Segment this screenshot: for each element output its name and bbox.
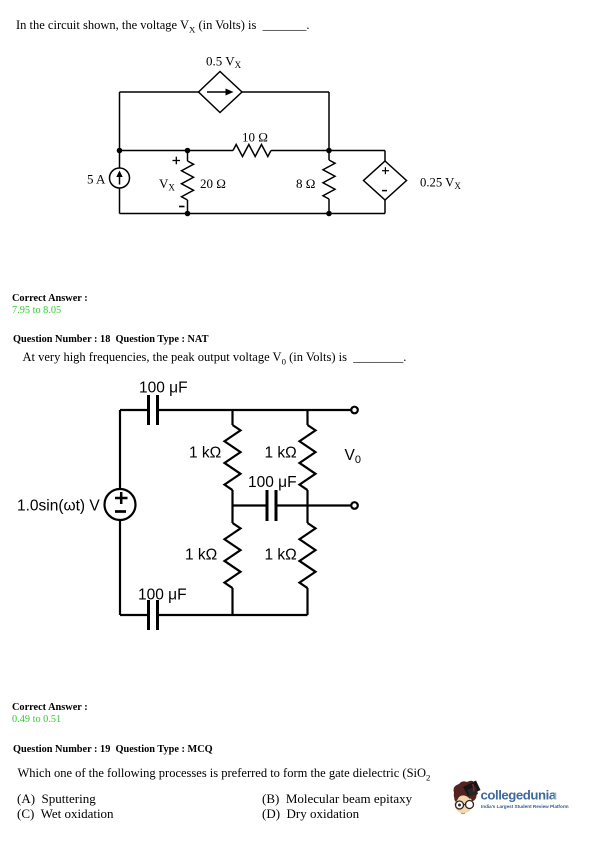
wire: left rail lower bbox=[119, 188, 121, 214]
green answer 1 bbox=[12, 305, 61, 317]
dependent source 0.25Vx (diamond, right) bbox=[364, 151, 407, 214]
wire: top horizontal bbox=[120, 409, 147, 411]
svg-text:VX: VX bbox=[159, 176, 175, 193]
mascot hair bbox=[454, 781, 479, 801]
green answer 2 bbox=[12, 714, 61, 726]
correct answer 2 bbox=[12, 702, 88, 714]
svg-text:1.0sin(ωt) V: 1.0sin(ωt) V bbox=[17, 498, 100, 515]
wire: middle horizontal right part bbox=[271, 150, 385, 152]
svg-text:100 μF: 100 μF bbox=[248, 474, 297, 491]
wire: bottom horizontal bbox=[120, 213, 386, 215]
resistor 20ohm (vertical) bbox=[182, 151, 194, 214]
svg-text:20 Ω: 20 Ω bbox=[200, 176, 226, 191]
option A bbox=[17, 792, 96, 807]
wire: left rail upper bbox=[119, 410, 121, 489]
capacitor 100uF (top) bbox=[149, 395, 158, 425]
option D bbox=[262, 807, 359, 822]
node E (8ohm bottom) bbox=[326, 211, 332, 217]
label minus bbox=[179, 206, 185, 208]
correct answer 1 bbox=[12, 293, 88, 305]
mascot eye bbox=[458, 804, 461, 807]
circuit 2 schematic bbox=[10, 378, 380, 640]
wire: right vertical from top wire to middle wire bbox=[328, 92, 330, 151]
node D (8ohm top) bbox=[326, 148, 332, 154]
svg-text:1 kΩ: 1 kΩ bbox=[265, 547, 297, 564]
wire: middle horizontal left part bbox=[120, 150, 234, 152]
resistor 1k (top-left) bbox=[225, 410, 241, 506]
svg-text:V0: V0 bbox=[345, 447, 361, 466]
question 18 text bbox=[23, 350, 407, 364]
svg-text:100 μF: 100 μF bbox=[139, 380, 188, 397]
svg-text:5 A: 5 A bbox=[87, 172, 106, 187]
svg-text:1 kΩ: 1 kΩ bbox=[185, 547, 217, 564]
capacitor 100uF (middle) bbox=[267, 490, 276, 521]
wire: top-right horizontal bbox=[242, 91, 329, 93]
circuit 1 schematic bbox=[80, 55, 470, 225]
label plus bbox=[173, 160, 181, 162]
wire: bottom horizontal bbox=[120, 614, 147, 616]
mascot tassel bbox=[473, 784, 474, 792]
mascot cap bbox=[463, 781, 481, 797]
svg-text:India's Largest Student Review: India's Largest Student Review Platform bbox=[481, 804, 569, 809]
svg-text:1 kΩ: 1 kΩ bbox=[265, 445, 297, 462]
resistor 1k (bottom-left) bbox=[225, 506, 241, 616]
option B bbox=[262, 792, 412, 807]
question 18 header bbox=[13, 334, 208, 346]
mascot glasses bbox=[456, 801, 464, 809]
resistor 1k (bottom-right) bbox=[300, 506, 316, 616]
svg-text:8 Ω: 8 Ω bbox=[296, 176, 315, 191]
svg-text:0.5 VX: 0.5 VX bbox=[206, 55, 242, 70]
wire: left rail lower bbox=[119, 520, 121, 615]
resistor 10ohm bbox=[233, 145, 271, 157]
wire: left rail upper bbox=[119, 92, 121, 168]
mascot face bbox=[455, 795, 473, 814]
svg-text:collegedunia: collegedunia bbox=[481, 788, 557, 803]
node C (20ohm bottom) bbox=[185, 211, 191, 217]
dependent source 0.5Vx (diamond, top) bbox=[199, 72, 243, 113]
svg-text:100 μF: 100 μF bbox=[138, 587, 187, 604]
node A (left-middle) bbox=[117, 148, 123, 154]
option C bbox=[17, 807, 114, 822]
svg-text:ı: ı bbox=[554, 788, 558, 803]
voltage source 1.0sin(wt) bbox=[105, 489, 136, 520]
svg-text:10 Ω: 10 Ω bbox=[242, 130, 268, 145]
mascot hair fringe bbox=[454, 787, 473, 802]
terminal top (open circle) bbox=[351, 407, 358, 414]
wire: top-left horizontal bbox=[120, 91, 199, 93]
resistor 8ohm (vertical) bbox=[323, 151, 335, 214]
question 19 text bbox=[18, 766, 431, 780]
current source 5A bbox=[110, 168, 130, 188]
capacitor 100uF (bottom) bbox=[149, 600, 158, 630]
mascot mouth bbox=[461, 812, 465, 815]
terminal bottom (open circle) bbox=[351, 502, 358, 509]
question 17 text bbox=[16, 18, 309, 32]
svg-text:1 kΩ: 1 kΩ bbox=[189, 445, 221, 462]
node B (20ohm top) bbox=[185, 148, 191, 154]
collegedunia logo bbox=[448, 778, 573, 822]
svg-text:0.25 VX: 0.25 VX bbox=[420, 175, 461, 191]
wire: middle horizontal bbox=[233, 504, 266, 506]
resistor 1k (top-right) bbox=[300, 410, 316, 506]
question 19 header bbox=[13, 744, 213, 756]
